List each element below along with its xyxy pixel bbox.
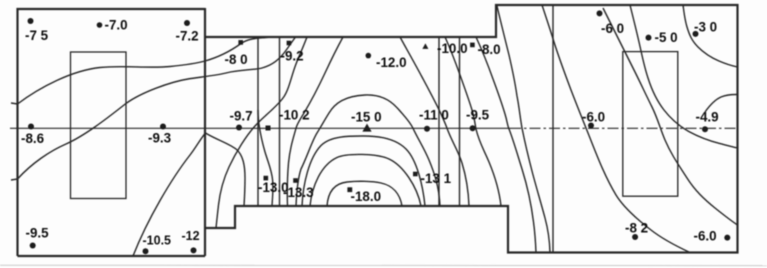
contour g1 right of dome (445, 37, 501, 206)
svg-text:-9.5: -9.5 (26, 226, 50, 241)
column line V2 (279, 37, 281, 206)
contour rising bottom of left block (133, 133, 206, 256)
column line V1 (257, 37, 259, 206)
svg-text:-9.7: -9.7 (230, 109, 253, 124)
point -15.0 (362, 124, 371, 132)
contour r6 small arc right (705, 94, 738, 112)
svg-text:-5 0: -5 0 (655, 30, 678, 45)
inner rectangle right block (623, 52, 678, 197)
contour dome N2 (310, 154, 421, 206)
svg-text:-4.9: -4.9 (696, 110, 719, 125)
point -10.0 (422, 43, 428, 49)
svg-text:-8 2: -8 2 (625, 221, 648, 236)
svg-text:-11 0: -11 0 (419, 108, 449, 123)
point -4.9 (702, 126, 708, 132)
point -7.0 (97, 22, 103, 28)
svg-text:-12.0: -12.0 (376, 55, 407, 70)
svg-text:-7.2: -7.2 (176, 29, 199, 44)
svg-text:-12: -12 (182, 229, 200, 243)
point -12 left (191, 247, 197, 253)
svg-text:-10 2: -10 2 (279, 108, 310, 123)
point -9.7 (236, 125, 242, 131)
contour dome N5 clipped left flank (287, 37, 343, 206)
point -18.0 (347, 187, 352, 192)
contour joint to fan b (206, 133, 246, 206)
svg-text:-9.3: -9.3 (148, 131, 171, 146)
column line V5 right block (552, 5, 554, 253)
contour f3 through -13.0 (258, 110, 273, 206)
contour dome N5 clipped right flank (400, 37, 469, 206)
svg-text:-18.0: -18.0 (351, 189, 382, 204)
svg-text:-7.0: -7.0 (105, 18, 128, 33)
svg-text:-6.0: -6.0 (582, 110, 605, 125)
point -8.2 (632, 234, 638, 240)
point -12.0 (366, 53, 372, 59)
contour dome N1 innermost (327, 181, 402, 206)
centerline axis right block dash-dot (510, 127, 738, 129)
svg-text:-8 0: -8 0 (225, 52, 248, 67)
svg-text:-9.5: -9.5 (466, 108, 490, 123)
point -6.0 mid right (588, 123, 594, 129)
point -10.2 (266, 126, 271, 131)
point -3.0 (693, 31, 699, 37)
point -8.6 (28, 124, 34, 130)
column line V3 (438, 37, 440, 206)
scan streak bottom (0, 264, 767, 266)
svg-text:-8.6: -8.6 (21, 131, 44, 146)
contour f2 diagonal through -9.7 down to notch (216, 37, 307, 228)
centerline axis left and middle (10, 127, 510, 129)
svg-text:-3 0: -3 0 (694, 20, 717, 35)
point -13.3 (293, 178, 298, 183)
point -9.5 mid (470, 125, 476, 131)
svg-text:-8.0: -8.0 (478, 42, 501, 57)
point -13.1 (413, 172, 418, 177)
contour r5 through -4.9 (630, 5, 738, 148)
joint line left block right edge (204, 8, 206, 256)
contour r3 (603, 8, 738, 225)
column line V4 (459, 37, 461, 206)
contour r2 (542, 5, 690, 253)
contour r4 top right corner (683, 5, 738, 67)
point -13.0 (264, 176, 269, 181)
contour dome N3 (302, 136, 425, 206)
point -11.0 (424, 126, 430, 132)
svg-text:-9.2: -9.2 (281, 49, 304, 64)
point -8.0 mid (238, 40, 243, 45)
contour -8 upper left (11, 37, 270, 104)
point -6.0 top right (597, 10, 603, 16)
svg-text:-6 0: -6 0 (601, 21, 624, 36)
svg-text:-10.5: -10.5 (143, 234, 172, 248)
point -7.5 (28, 18, 34, 24)
svg-text:-6.0: -6.0 (694, 229, 717, 244)
point -6.0 bottom right (724, 235, 730, 241)
contour dome N4 (296, 95, 440, 206)
svg-text:-10.0: -10.0 (437, 41, 468, 56)
point -5.0 (646, 35, 652, 41)
point -10.5 (143, 248, 149, 254)
contour g2 through step corner (476, 37, 536, 253)
svg-text:-13 1: -13 1 (421, 171, 452, 186)
contour r1 right block left (497, 6, 550, 253)
point -9.2 (287, 41, 292, 46)
svg-text:-15 0: -15 0 (351, 110, 382, 125)
inner rectangle left block (71, 52, 127, 199)
point -7.2 (184, 20, 190, 26)
svg-text:-7 5: -7 5 (25, 28, 49, 43)
point -9.5 left bottom (30, 243, 36, 249)
svg-text:-13.3: -13.3 (283, 185, 314, 200)
point -8.0 right of mid (470, 43, 475, 48)
contour -9 left sweep (11, 37, 296, 180)
point -9.3 (160, 124, 166, 130)
